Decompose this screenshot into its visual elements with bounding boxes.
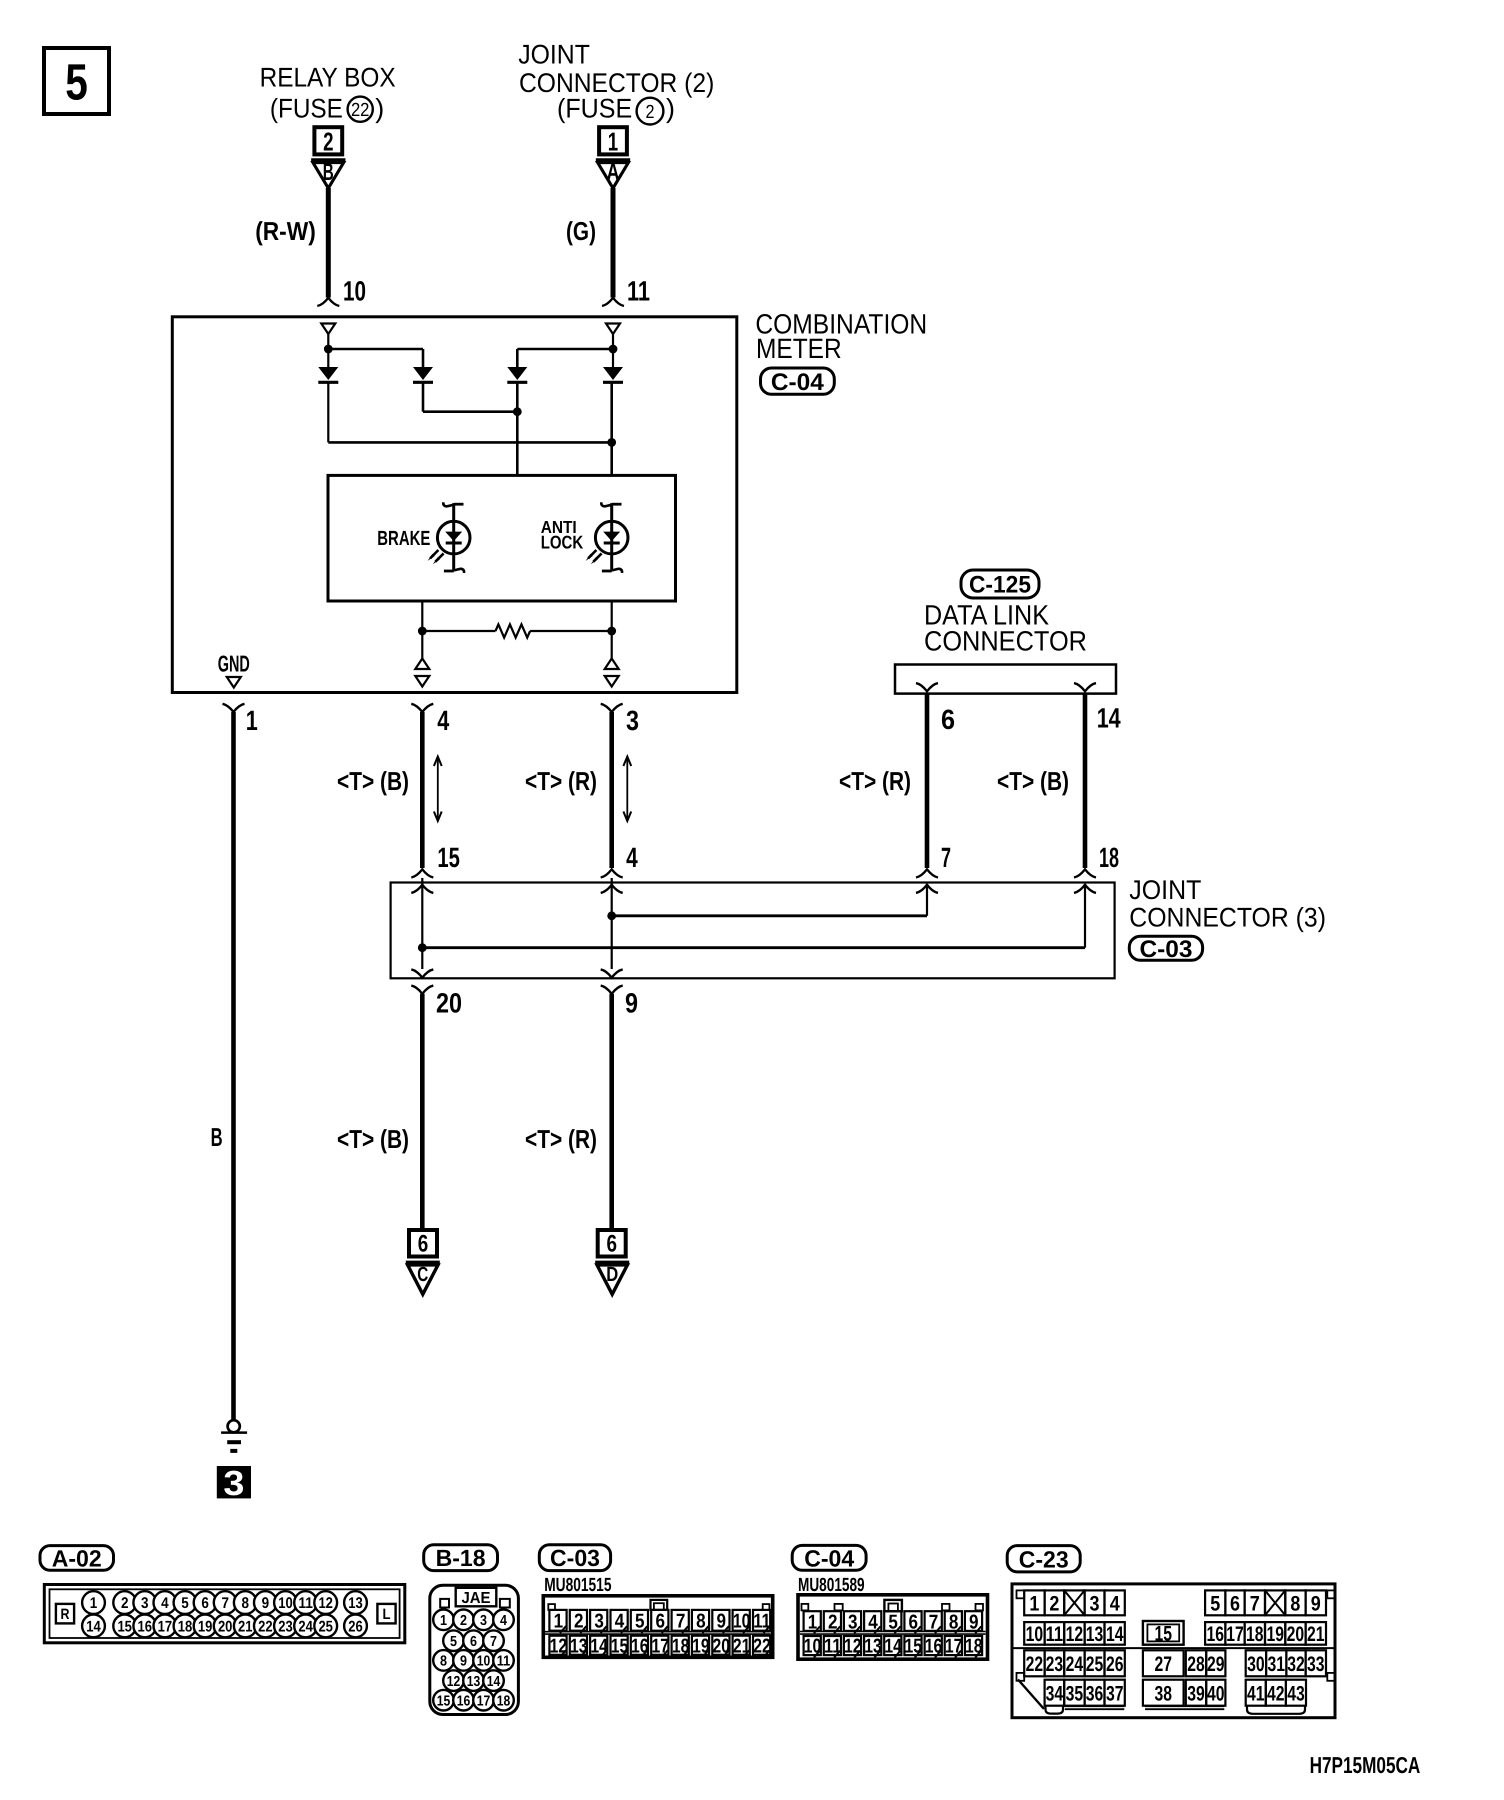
svg-text:<T> (B): <T> (B) [997,766,1069,796]
svg-text:24: 24 [1066,1653,1084,1676]
svg-text:14: 14 [590,1635,608,1657]
svg-text:D: D [606,1263,618,1286]
svg-text:26: 26 [348,1619,363,1636]
svg-text:B-18: B-18 [436,1545,486,1571]
svg-text:3: 3 [594,1611,604,1633]
svg-text:13: 13 [348,1595,363,1612]
svg-text:<T> (B): <T> (B) [337,766,409,796]
svg-text:15: 15 [611,1635,629,1657]
svg-text:12: 12 [1066,1623,1084,1646]
svg-text:19: 19 [198,1619,213,1636]
svg-text:22: 22 [258,1619,273,1636]
svg-text:39: 39 [1187,1682,1205,1705]
svg-text:21: 21 [733,1635,751,1657]
svg-text:10: 10 [1026,1623,1044,1646]
svg-text:2: 2 [323,127,333,157]
svg-text:(FUSE: (FUSE [557,94,632,124]
svg-text:6: 6 [941,704,955,735]
svg-text:20: 20 [1287,1623,1305,1646]
svg-text:8: 8 [242,1595,250,1612]
svg-text:10: 10 [343,276,366,307]
svg-text:16: 16 [138,1619,153,1636]
svg-text:C-04: C-04 [771,369,825,396]
svg-text:C-03: C-03 [550,1545,600,1571]
svg-text:8: 8 [1290,1592,1300,1615]
svg-text:A-02: A-02 [52,1545,102,1571]
svg-text:19: 19 [692,1635,710,1657]
svg-text:15: 15 [437,842,460,873]
svg-text:7: 7 [676,1611,686,1633]
svg-text:MU801515: MU801515 [544,1575,612,1596]
svg-text:L: L [383,1606,391,1623]
svg-text:17: 17 [1226,1623,1244,1646]
svg-text:30: 30 [1247,1653,1265,1676]
svg-text:4: 4 [161,1595,169,1612]
svg-text:13: 13 [570,1635,588,1657]
svg-text:20: 20 [713,1635,731,1657]
svg-text:<T> (B): <T> (B) [337,1124,409,1154]
svg-text:JAE: JAE [462,1590,491,1607]
svg-text:36: 36 [1086,1682,1104,1705]
svg-text:9: 9 [717,1611,727,1633]
svg-text:10: 10 [278,1595,293,1612]
svg-text:31: 31 [1267,1653,1285,1676]
svg-text:(G): (G) [566,216,596,246]
svg-text:7: 7 [1250,1592,1260,1615]
svg-text:5: 5 [635,1611,645,1633]
svg-text:17: 17 [651,1635,669,1657]
svg-text:5: 5 [181,1595,189,1612]
svg-text:28: 28 [1187,1653,1205,1676]
svg-text:9: 9 [625,988,638,1019]
svg-text:3: 3 [626,705,639,736]
svg-text:17: 17 [945,1636,963,1658]
svg-text:(R-W): (R-W) [255,216,316,246]
svg-text:16: 16 [1206,1623,1224,1646]
svg-text:5: 5 [65,53,88,110]
svg-text:<T> (R): <T> (R) [525,1124,597,1154]
svg-text:18: 18 [497,1693,511,1709]
svg-text:4: 4 [626,842,638,873]
svg-text:1: 1 [90,1595,98,1612]
svg-text:21: 21 [1307,1623,1325,1646]
svg-text:29: 29 [1207,1653,1225,1676]
svg-text:7: 7 [490,1634,497,1650]
svg-text:C: C [417,1263,428,1286]
svg-text:11: 11 [298,1595,313,1612]
svg-text:1: 1 [608,127,618,157]
svg-text:C-125: C-125 [969,572,1031,599]
svg-text:9: 9 [262,1595,270,1612]
svg-text:24: 24 [298,1619,313,1636]
svg-text:<T> (R): <T> (R) [839,766,911,796]
svg-text:7: 7 [221,1595,229,1612]
svg-text:25: 25 [1086,1653,1104,1676]
svg-text:12: 12 [318,1595,333,1612]
svg-text:): ) [666,94,675,124]
svg-text:1: 1 [440,1613,447,1629]
svg-text:12: 12 [844,1636,862,1658]
svg-text:CONNECTOR: CONNECTOR [924,626,1087,657]
svg-text:33: 33 [1307,1653,1325,1676]
svg-text:2: 2 [460,1613,467,1629]
svg-text:20: 20 [218,1619,233,1636]
svg-text:32: 32 [1287,1653,1305,1676]
svg-text:6: 6 [201,1595,209,1612]
svg-text:): ) [375,94,384,124]
svg-text:43: 43 [1287,1682,1305,1705]
svg-text:BRAKE: BRAKE [377,527,430,550]
svg-text:14: 14 [1097,703,1121,734]
svg-text:R: R [61,1606,70,1623]
svg-text:35: 35 [1066,1682,1084,1705]
svg-text:JOINT: JOINT [1129,875,1201,905]
svg-text:13: 13 [864,1636,882,1658]
svg-text:18: 18 [178,1619,193,1636]
svg-text:C-04: C-04 [804,1545,854,1571]
svg-text:4: 4 [437,705,449,736]
svg-text:18: 18 [672,1635,690,1657]
svg-text:19: 19 [1266,1623,1284,1646]
svg-text:13: 13 [1086,1623,1104,1646]
svg-text:2: 2 [646,102,655,123]
svg-text:42: 42 [1267,1682,1285,1705]
svg-text:9: 9 [1311,1592,1321,1615]
svg-text:2: 2 [121,1595,129,1612]
svg-text:8: 8 [696,1611,706,1633]
svg-text:1: 1 [1029,1592,1039,1615]
svg-text:3: 3 [480,1613,487,1629]
svg-text:4: 4 [1110,1592,1120,1615]
svg-text:JOINT: JOINT [518,40,590,70]
svg-text:6: 6 [470,1634,477,1650]
svg-text:MU801589: MU801589 [798,1575,865,1596]
svg-text:41: 41 [1247,1682,1265,1705]
svg-text:4: 4 [500,1613,507,1629]
svg-text:34: 34 [1046,1682,1064,1705]
svg-text:21: 21 [238,1619,253,1636]
svg-text:14: 14 [884,1636,902,1658]
svg-text:11: 11 [627,276,650,307]
svg-text:40: 40 [1207,1682,1225,1705]
svg-text:6: 6 [655,1611,665,1633]
svg-text:18: 18 [1099,842,1119,873]
svg-text:23: 23 [1046,1653,1064,1676]
svg-text:14: 14 [86,1619,101,1636]
svg-text:1: 1 [554,1611,564,1633]
svg-text:27: 27 [1154,1653,1172,1676]
svg-text:5: 5 [450,1634,457,1650]
svg-text:16: 16 [925,1636,943,1658]
svg-text:14: 14 [487,1674,501,1690]
svg-text:8: 8 [440,1654,447,1670]
svg-text:GND: GND [218,651,250,677]
svg-text:CONNECTOR (3): CONNECTOR (3) [1129,903,1326,933]
svg-text:7: 7 [941,842,951,873]
svg-text:12: 12 [447,1674,461,1690]
svg-text:5: 5 [1210,1592,1220,1615]
svg-text:18: 18 [1246,1623,1264,1646]
svg-text:12: 12 [550,1635,568,1657]
svg-text:METER: METER [756,333,842,364]
svg-text:6: 6 [1230,1592,1240,1615]
svg-text:H7P15M05CA: H7P15M05CA [1310,1752,1421,1778]
svg-text:LOCK: LOCK [541,532,584,553]
svg-text:13: 13 [467,1674,481,1690]
svg-text:23: 23 [278,1619,293,1636]
svg-text:16: 16 [631,1635,649,1657]
svg-text:16: 16 [457,1693,471,1709]
svg-text:17: 17 [477,1693,491,1709]
svg-text:C-03: C-03 [1140,936,1193,963]
svg-text:22: 22 [351,100,370,121]
svg-text:11: 11 [824,1636,842,1658]
svg-text:6: 6 [418,1231,429,1258]
svg-text:20: 20 [436,988,462,1019]
svg-text:A: A [607,159,620,186]
svg-text:11: 11 [1046,1623,1064,1646]
svg-text:C-23: C-23 [1019,1546,1069,1572]
svg-text:1: 1 [246,705,258,736]
svg-text:<T> (R): <T> (R) [525,766,597,796]
svg-text:15: 15 [905,1636,923,1658]
svg-text:10: 10 [477,1654,491,1670]
svg-text:15: 15 [117,1619,132,1636]
svg-text:26: 26 [1106,1653,1124,1676]
svg-text:2: 2 [1049,1592,1059,1615]
svg-text:2: 2 [574,1611,584,1633]
svg-text:15: 15 [1154,1623,1172,1646]
svg-text:B: B [323,159,334,186]
svg-text:15: 15 [437,1693,451,1709]
svg-text:37: 37 [1106,1682,1124,1705]
svg-text:38: 38 [1154,1682,1172,1705]
svg-text:11: 11 [497,1654,511,1670]
svg-text:22: 22 [1026,1653,1044,1676]
svg-text:3: 3 [141,1595,149,1612]
svg-text:(FUSE: (FUSE [270,94,343,124]
svg-text:3: 3 [1090,1592,1100,1615]
svg-text:17: 17 [158,1619,173,1636]
svg-text:RELAY BOX: RELAY BOX [260,63,396,93]
svg-text:22: 22 [753,1635,771,1657]
svg-text:18: 18 [965,1636,983,1658]
svg-text:6: 6 [606,1231,617,1258]
svg-text:3: 3 [223,1464,244,1503]
svg-text:14: 14 [1106,1623,1124,1646]
svg-text:10: 10 [804,1636,822,1658]
svg-text:25: 25 [318,1619,333,1636]
svg-text:9: 9 [460,1654,467,1670]
svg-text:B: B [211,1122,223,1152]
